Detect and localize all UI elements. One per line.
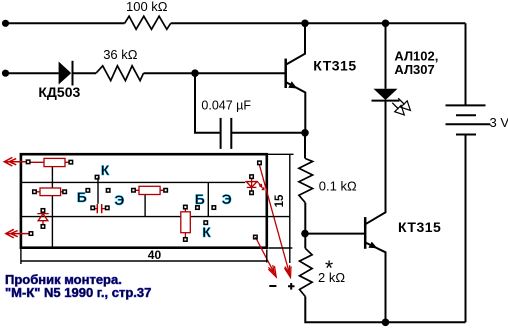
wire base node to Q2 [305, 233, 365, 235]
svg-text:0.1 kΩ: 0.1 kΩ [319, 178, 357, 193]
red arrow left top [4, 157, 26, 166]
svg-text:КТ315: КТ315 [313, 58, 356, 74]
svg-text:2 kΩ: 2 kΩ [318, 270, 345, 285]
battery plate short 1 [456, 114, 476, 116]
LED VD2 triangle [374, 89, 398, 100]
wire node to R4 [304, 234, 306, 249]
wire capacitor to emitter node [231, 132, 305, 134]
node bottom emitter junction [382, 319, 390, 327]
PCB board outline box [21, 154, 267, 248]
svg-text:40: 40 [148, 248, 162, 262]
transistor Q2 KT315 [364, 217, 367, 249]
PCB trace v1a [51, 167, 53, 183]
svg-text:К: К [202, 224, 211, 240]
label minus [269, 285, 276, 287]
red resistor r4 body vertical [181, 209, 191, 238]
svg-text:КТ315: КТ315 [398, 219, 441, 235]
dimension 15 tick mid [267, 216, 291, 218]
wire input lower-left [6, 72, 59, 74]
red LED d2 in box [246, 179, 264, 191]
PCB trace v4 [207, 182, 209, 216]
node emitter/cap junction [301, 129, 309, 137]
node top LED junction [382, 20, 390, 28]
PCB trace v2 [97, 178, 99, 204]
svg-text:КД503: КД503 [38, 84, 80, 100]
node top collector junction [301, 20, 309, 28]
wire top rail left [6, 22, 125, 24]
resistor R3 0.1k zigzag [299, 159, 313, 203]
resistor R1 100k zigzag [125, 16, 171, 29]
LED VD2 wire from top [385, 23, 387, 89]
battery GB1 top wire [465, 23, 467, 105]
dimension 40 left tick [20, 249, 22, 264]
dimension 15 tick top [268, 153, 294, 155]
svg-text:15: 15 [274, 194, 286, 207]
wire diode to R2 [73, 72, 97, 74]
svg-text:Э: Э [114, 192, 124, 208]
capacitor C1 0.047uF plates [220, 118, 222, 149]
red resistor r1 body [30, 158, 69, 166]
svg-text:36 kΩ: 36 kΩ [103, 47, 138, 62]
red diode d1 [37, 212, 48, 226]
battery plate long 2 [446, 123, 491, 125]
dimension 15 line [289, 155, 291, 264]
battery plate long 1 [446, 104, 486, 106]
battery plate short 2 [456, 134, 476, 136]
red resistor r2 body [36, 188, 63, 196]
svg-text:3 V: 3 V [490, 115, 508, 130]
label plus [288, 283, 295, 290]
diode VD1 KD503 [59, 62, 72, 85]
resistor R4 2k zigzag [300, 248, 313, 296]
red arrow left bottom [6, 229, 29, 238]
dimension 40 right tick [266, 249, 268, 262]
node base junction A [191, 69, 199, 77]
dimension 40 line [21, 260, 267, 262]
LED emission arrow 1 [398, 98, 404, 104]
LED emission arrow 2 [392, 103, 398, 109]
node base junction B [301, 230, 309, 238]
svg-text:К: К [101, 162, 110, 178]
dimension 15 tick bottom [268, 247, 292, 249]
pads black squares [26, 160, 261, 241]
PCB trace v1b [51, 182, 53, 246]
node terminal top-left [2, 20, 9, 27]
svg-text:Б: Б [195, 191, 205, 207]
node terminal lower-left [2, 70, 9, 77]
svg-text:100 kΩ: 100 kΩ [126, 0, 168, 14]
red capacitor c1 [95, 204, 106, 213]
red long arrow B to minus [255, 237, 276, 277]
PCB trace line1 [21, 181, 245, 183]
wire junction down to capacitor [195, 73, 220, 133]
PCB trace line2 [21, 216, 266, 218]
red long arrow A to plus [260, 165, 292, 277]
PCB trace v3 [144, 195, 146, 217]
red resistor r3 body [135, 186, 164, 194]
wire node to R3 [304, 133, 306, 159]
wire bottom rail [305, 297, 465, 323]
wire R3 to base node [304, 203, 306, 234]
svg-text:Б: Б [77, 189, 87, 205]
transistor Q1 KT315 [284, 59, 287, 88]
wire R2 to base junction [144, 72, 286, 74]
wire top rail right [171, 22, 466, 24]
svg-text:Э: Э [222, 191, 232, 207]
svg-text:АЛ307: АЛ307 [394, 62, 434, 77]
svg-text:"М-К" N5 1990 г., стр.37: "М-К" N5 1990 г., стр.37 [5, 285, 151, 300]
svg-text:0.047 µF: 0.047 µF [201, 98, 251, 112]
battery bottom wire [465, 135, 467, 323]
resistor R2 36k zigzag [96, 66, 144, 81]
